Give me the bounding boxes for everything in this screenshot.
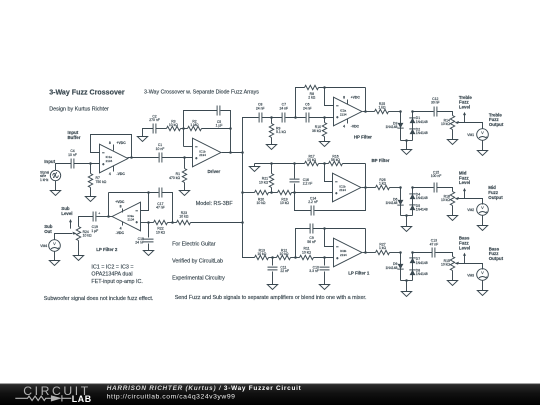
label HP Filter: [354, 135, 372, 140]
ground R15: [447, 281, 457, 286]
node bus BP tap: [241, 191, 244, 194]
node C17 tap: [171, 221, 174, 224]
voltmeter VM2: [467, 204, 488, 216]
node C18 tap: [147, 221, 150, 224]
wire C4 to IC1a +in: [74, 163, 100, 165]
svg-text:Level: Level: [459, 245, 470, 250]
label Input: [44, 159, 55, 164]
node IC1b fb: [229, 151, 232, 154]
wire C17 vert: [162, 193, 173, 223]
svg-text:Input: Input: [44, 159, 55, 164]
ground R18: [447, 216, 457, 221]
wire IC1b out: [222, 152, 243, 154]
svg-text:2.2 nF: 2.2 nF: [308, 200, 318, 204]
label Bass Fuzz Level: [459, 236, 470, 251]
svg-text:+VDC: +VDC: [351, 95, 361, 99]
footer author line: [107, 385, 302, 392]
note guitar: [172, 241, 216, 247]
node LP2 out: [107, 215, 110, 218]
svg-text:8: 8: [120, 205, 122, 209]
svg-text:3.3 nF: 3.3 nF: [309, 269, 319, 273]
ground R7: [85, 197, 95, 202]
treble level arrow: [463, 112, 466, 123]
ground VM2: [477, 216, 487, 231]
svg-text:2134: 2134: [199, 153, 206, 157]
svg-text:1N4148: 1N4148: [416, 131, 428, 135]
node A treble: [399, 110, 402, 113]
svg-text:http://circuitlab.com/ca4q324v: http://circuitlab.com/ca4q324v3yw99: [107, 394, 236, 401]
node R21 top: [270, 162, 273, 165]
resistor R26: [376, 178, 401, 190]
node C9 tap: [294, 256, 297, 259]
svg-text:3-Way Crossover w. Separate Di: 3-Way Crossover w. Separate Diode Fuzz A…: [144, 90, 259, 96]
capacitor C2: [149, 114, 160, 133]
wire bus to R23: [191, 222, 243, 224]
svg-text:HARRISON RICHTER (Kurtus) / 3-: HARRISON RICHTER (Kurtus) / 3-Way Fuzzer…: [107, 385, 302, 392]
svg-text:1 µF: 1 µF: [91, 229, 98, 233]
voltmeter VM4: [40, 240, 60, 252]
resistor R23: [177, 211, 191, 225]
svg-text:1N4148: 1N4148: [386, 201, 398, 205]
resistor R22: [154, 220, 168, 234]
svg-text:24 nF: 24 nF: [279, 106, 288, 110]
ground diodes bass: [401, 281, 411, 297]
note verified: [172, 259, 223, 265]
svg-text:Design by Kurtus Richter: Design by Kurtus Richter: [49, 106, 109, 112]
ground VM3: [477, 281, 487, 296]
svg-text:VM1: VM1: [467, 133, 474, 137]
svg-text:10 kΩ: 10 kΩ: [257, 201, 266, 205]
note ic1: [91, 265, 133, 271]
wire IC3a out: [97, 216, 113, 218]
resistor R1: [169, 158, 187, 191]
svg-text:100 nF: 100 nF: [431, 174, 442, 178]
svg-text:10 kΩ: 10 kΩ: [280, 252, 289, 256]
op-amp IC1b: [193, 138, 221, 167]
svg-text:1N4148: 1N4148: [416, 120, 428, 124]
svg-text:Subwoofer signal does not incl: Subwoofer signal does not include fuzz e…: [44, 296, 154, 302]
svg-text:Out: Out: [44, 229, 52, 234]
svg-text:8: 8: [109, 141, 111, 145]
node join mid: [405, 214, 408, 217]
logo wire-resistor-diode motif: [15, 395, 71, 401]
node B mid: [411, 186, 414, 189]
svg-text:2 kΩ: 2 kΩ: [308, 96, 316, 100]
svg-text:BP Filter: BP Filter: [372, 158, 390, 163]
wire C2 to R3: [156, 128, 167, 130]
node at R7 tap: [89, 162, 92, 165]
footer bar: [0, 384, 540, 405]
wire C12 to R14: [437, 112, 453, 116]
svg-text:V: V: [481, 205, 484, 210]
svg-text:LP Filter 2: LP Filter 2: [96, 247, 118, 252]
svg-text:Level: Level: [61, 211, 72, 216]
wire HP -in tap: [325, 88, 334, 106]
potentiometer R18: [441, 192, 459, 216]
svg-text:24 nF: 24 nF: [256, 106, 265, 110]
node R8 right: [323, 86, 326, 89]
svg-text:VM3: VM3: [467, 273, 474, 277]
svg-text:47 nF: 47 nF: [156, 206, 165, 210]
resistor R25: [375, 102, 401, 114]
label LP Filter 1: [348, 271, 370, 276]
resistor R12: [277, 248, 300, 259]
ground R10: [319, 142, 329, 147]
resistor R11: [300, 247, 334, 260]
wire diode col B bass: [412, 253, 414, 281]
svg-text:750 kΩ: 750 kΩ: [96, 180, 107, 184]
diode D9: [386, 262, 404, 270]
svg-text:270 nF: 270 nF: [149, 118, 160, 122]
logo LAB: [72, 394, 92, 404]
IC1a pin 8 +VDC: [109, 141, 126, 150]
svg-text:1 µF: 1 µF: [216, 124, 223, 128]
svg-text:1 kΩ: 1 kΩ: [379, 246, 387, 250]
svg-text:Send Fuzz and Sub signals to s: Send Fuzz and Sub signals to separate am…: [175, 295, 367, 301]
op-amp IC2b: [333, 173, 361, 202]
svg-text:5.1 kΩ: 5.1 kΩ: [276, 130, 286, 134]
svg-text:30 nF: 30 nF: [431, 101, 440, 105]
capacitor C10: [309, 258, 329, 285]
ground SG1: [50, 181, 60, 196]
wire IC3b out: [363, 252, 376, 254]
node LP1 -in tap: [323, 227, 326, 230]
wire IC1a out: [128, 157, 159, 159]
svg-text:56 kΩ: 56 kΩ: [331, 158, 340, 162]
wire diode col A mid: [400, 188, 402, 216]
wire R14 wiper: [459, 123, 483, 129]
wire C7-C6: [286, 117, 306, 119]
svg-text:1 kΩ: 1 kΩ: [378, 106, 386, 110]
capacitor C8: [256, 103, 265, 123]
potentiometer R14: [441, 116, 459, 140]
title: [49, 88, 125, 96]
note ic3: [91, 279, 143, 285]
svg-text:-VDC: -VDC: [117, 172, 126, 176]
capacitor C17: [156, 188, 165, 210]
node R2 right: [229, 127, 232, 130]
capacitor C15: [431, 171, 442, 193]
wire C13 to R15: [436, 253, 453, 257]
svg-text:FET-input op-amp IC.: FET-input op-amp IC.: [91, 279, 143, 285]
svg-text:+VDC: +VDC: [117, 141, 127, 145]
byline: [49, 106, 109, 112]
wire LP1 fb down: [365, 229, 367, 253]
node C10 tap: [323, 256, 326, 259]
IC2a pin 8 +VDC: [343, 95, 360, 104]
node J2 BP: [293, 191, 296, 194]
svg-text:Output: Output: [489, 122, 504, 127]
mid level arrow: [463, 188, 466, 199]
node R1 tap: [183, 156, 186, 159]
svg-text:1N4148: 1N4148: [416, 208, 428, 212]
wire diode col A: [400, 112, 402, 141]
svg-text:1N4148: 1N4148: [416, 196, 428, 200]
diode D1: [409, 116, 427, 124]
svg-text:IC1 = IC2 = IC3 =: IC1 = IC2 = IC3 =: [91, 265, 133, 271]
wire to C15: [413, 187, 434, 189]
svg-text:2134: 2134: [340, 253, 347, 257]
wire SG1 top to C4: [56, 164, 72, 171]
svg-text:-VDC: -VDC: [351, 125, 360, 129]
svg-text:36 kΩ: 36 kΩ: [312, 129, 321, 133]
resistor R3: [167, 119, 184, 130]
svg-text:V: V: [481, 130, 484, 135]
node B treble: [411, 110, 414, 113]
wire C8-C7: [262, 117, 283, 119]
resistor R21: [259, 164, 274, 193]
label Driver: [208, 169, 221, 174]
node C11 tap: [271, 256, 274, 259]
ground diodes mid: [401, 216, 411, 232]
logo CIRCUIT: [23, 384, 91, 398]
wire C1 to IC1b: [162, 157, 193, 159]
node C16 top: [293, 162, 296, 165]
capacitor C19: [91, 211, 100, 233]
wire IC2b out: [362, 187, 376, 189]
svg-text:+VDC: +VDC: [115, 200, 125, 204]
voltmeter VM1: [467, 129, 488, 141]
label BP Filter: [372, 158, 390, 163]
svg-text:10 kΩ: 10 kΩ: [441, 198, 450, 202]
wire LP1 -in: [325, 229, 334, 247]
svg-text:10 kΩ: 10 kΩ: [441, 263, 450, 267]
node R10 tap: [323, 116, 326, 119]
wire bus up to HP: [243, 118, 259, 153]
svg-text:24 nF: 24 nF: [135, 241, 144, 245]
op-amp IC2a: [334, 97, 362, 126]
subtitle: [144, 90, 259, 96]
svg-text:Verified by CircuitLab: Verified by CircuitLab: [172, 259, 223, 265]
wire HP fb down: [365, 88, 367, 112]
resistor R17: [305, 154, 329, 165]
resistor R13: [255, 248, 277, 259]
svg-text:Output: Output: [489, 256, 504, 261]
wire diode col B: [412, 112, 414, 141]
ground BP rail: [249, 164, 259, 172]
ground C2: [137, 129, 153, 142]
label LP Filter 2: [96, 247, 118, 252]
node bus LP2 tap: [241, 221, 244, 224]
node B bass: [411, 251, 414, 254]
svg-text:Experimental Circuitry: Experimental Circuitry: [172, 276, 225, 282]
capacitor C18: [135, 223, 153, 251]
node join treble: [405, 139, 408, 142]
diode D8: [409, 269, 427, 277]
svg-text:10 kΩ: 10 kΩ: [280, 201, 289, 205]
wire diode join bass: [401, 280, 413, 282]
resistor R2: [184, 119, 231, 130]
ground C11: [267, 285, 277, 290]
svg-text:4: 4: [343, 125, 345, 129]
svg-text:10 kΩ: 10 kΩ: [302, 250, 311, 254]
signal source SG1: [40, 170, 61, 182]
svg-text:VM4: VM4: [40, 244, 47, 248]
ground R9: [266, 145, 276, 150]
IC1a pin 4 -VDC: [109, 166, 125, 177]
ground VM1: [477, 141, 487, 156]
svg-text:LAB: LAB: [72, 394, 92, 404]
footer url: [107, 394, 236, 401]
svg-text:Output: Output: [488, 195, 503, 200]
svg-text:10 kΩ: 10 kΩ: [259, 180, 268, 184]
svg-text:2134: 2134: [128, 218, 135, 222]
wire R24 wiper: [55, 234, 73, 240]
bass level arrow: [463, 253, 466, 264]
svg-text:3-Way Fuzz Crossover: 3-Way Fuzz Crossover: [49, 88, 125, 96]
svg-text:1N4148: 1N4148: [416, 261, 428, 265]
svg-text:-VDC: -VDC: [116, 231, 125, 235]
wire C17 to fb: [109, 192, 159, 194]
ground VM4: [49, 252, 59, 266]
svg-text:Model: RS-3BF: Model: RS-3BF: [196, 201, 234, 207]
sub level arrow: [69, 219, 72, 229]
node R9 tap: [270, 116, 273, 119]
wire C9 right: [313, 228, 366, 230]
resistor R8: [305, 85, 366, 99]
svg-text:Buffer: Buffer: [68, 135, 81, 140]
capacitor C7: [279, 103, 288, 123]
label Mid Fuzz Level: [459, 171, 470, 186]
note send: [175, 295, 367, 301]
svg-text:10 kΩ: 10 kΩ: [257, 252, 266, 256]
wire to C13: [413, 252, 433, 254]
wire bus to R20: [243, 192, 255, 194]
resistor R20: [255, 190, 278, 205]
IC3a pin 8 +VDC: [115, 200, 125, 212]
node A bass: [399, 251, 402, 254]
diode D2: [409, 128, 427, 136]
ground R14: [447, 140, 457, 145]
label Treble Fuzz Level: [459, 95, 472, 110]
note experimental: [172, 276, 225, 282]
wire diode col A bass: [400, 253, 402, 281]
op-amp IC3a: [112, 202, 140, 231]
wire diode col B mid: [412, 188, 414, 216]
wire BP top rail: [255, 163, 305, 165]
wire driver fb left: [184, 111, 218, 147]
wire R22 to IC3a +in: [141, 222, 154, 224]
node BP out: [364, 186, 367, 189]
capacitor C6: [303, 103, 312, 123]
IC3a pin 4 -VDC: [116, 222, 125, 235]
svg-text:+: +: [98, 211, 100, 215]
wire C15 to R18: [437, 188, 453, 192]
capacitor C9: [307, 224, 316, 244]
svg-text:For Electric Guitar: For Electric Guitar: [172, 241, 216, 247]
svg-text:2134: 2134: [339, 188, 346, 192]
note ic2: [91, 272, 132, 278]
capacitor C12: [431, 97, 440, 117]
svg-text:1 MΩ: 1 MΩ: [190, 123, 199, 127]
svg-text:OPA2134PA dual: OPA2134PA dual: [91, 272, 132, 278]
wire R18 wiper: [459, 199, 483, 205]
wire diode join mid: [401, 215, 413, 217]
op-amp IC1a: [100, 144, 128, 173]
note sub: [44, 296, 154, 302]
wire BP fb down: [365, 164, 367, 188]
resistor R27: [376, 243, 401, 255]
svg-text:47 nF: 47 nF: [430, 242, 439, 246]
ground C10: [319, 285, 329, 290]
svg-text:10 kΩ: 10 kΩ: [441, 122, 450, 126]
ground diodes treble: [401, 141, 411, 155]
svg-text:1N4148: 1N4148: [416, 272, 428, 276]
label Mid Fuzz Output: [488, 185, 503, 200]
svg-text:24 nF: 24 nF: [303, 106, 312, 110]
label Treble Fuzz Output: [489, 112, 504, 127]
svg-text:1 kHz: 1 kHz: [40, 178, 49, 182]
wire R8 left vert: [296, 88, 305, 118]
svg-text:2134: 2134: [340, 112, 347, 116]
capacitor C11: [268, 258, 290, 285]
node driver -in tap: [182, 127, 185, 130]
IC2a pin 4 -VDC: [343, 119, 359, 129]
diode D7: [409, 257, 427, 265]
label Sub Out: [44, 224, 53, 234]
capacitor C13: [430, 239, 439, 258]
resistor R19: [278, 190, 333, 205]
op-amp IC3b: [334, 238, 362, 267]
wire IC1a feedback: [91, 135, 132, 158]
svg-text:LP Filter 1: LP Filter 1: [348, 271, 370, 276]
svg-text:10 kΩ: 10 kΩ: [307, 158, 316, 162]
wire C6 to +in: [309, 117, 334, 119]
wire IC2a out: [363, 111, 375, 113]
node driver out: [241, 151, 244, 154]
wire LP2 fb: [108, 193, 110, 217]
voltmeter VM3: [467, 269, 488, 281]
diode D5: [409, 204, 427, 212]
wire C19 to R24: [79, 217, 94, 227]
svg-text:1 kΩ: 1 kΩ: [379, 182, 387, 186]
capacitor C14: [295, 188, 366, 216]
wire bus down: [243, 153, 255, 258]
svg-text:10 kΩ: 10 kΩ: [179, 215, 188, 219]
svg-text:56 nF: 56 nF: [307, 240, 316, 244]
svg-text:10 kΩ: 10 kΩ: [156, 230, 165, 234]
svg-text:4: 4: [109, 172, 111, 176]
resistor R9: [269, 118, 286, 145]
node join bass: [405, 279, 408, 282]
svg-text:10 kΩ: 10 kΩ: [83, 234, 92, 238]
svg-text:VM2: VM2: [467, 208, 474, 212]
ground R1: [179, 191, 189, 196]
node A mid: [399, 186, 402, 189]
capacitor C16: [290, 164, 313, 193]
wire R23-R22: [168, 222, 177, 224]
potentiometer R24: [73, 227, 93, 256]
node R8 tap: [294, 116, 297, 119]
ground R24: [73, 256, 83, 261]
note model: [196, 201, 234, 207]
svg-text:1N4148: 1N4148: [386, 266, 398, 270]
resistor R16: [329, 154, 366, 165]
wire diode join treble: [401, 140, 413, 142]
wire to C12: [413, 111, 434, 113]
wire to IC1b -in: [184, 146, 193, 148]
capacitor C4: [68, 149, 77, 168]
svg-text:2134: 2134: [106, 159, 113, 163]
svg-text:22 nF: 22 nF: [280, 269, 289, 273]
label Bass Fuzz Output: [489, 246, 504, 261]
diode D4: [409, 192, 427, 200]
wire BP -in: [325, 164, 333, 182]
node BP -in tap: [323, 162, 326, 165]
ground C18: [143, 251, 153, 256]
wire driver fb right: [221, 111, 231, 153]
wire C9 left vert: [296, 229, 311, 258]
